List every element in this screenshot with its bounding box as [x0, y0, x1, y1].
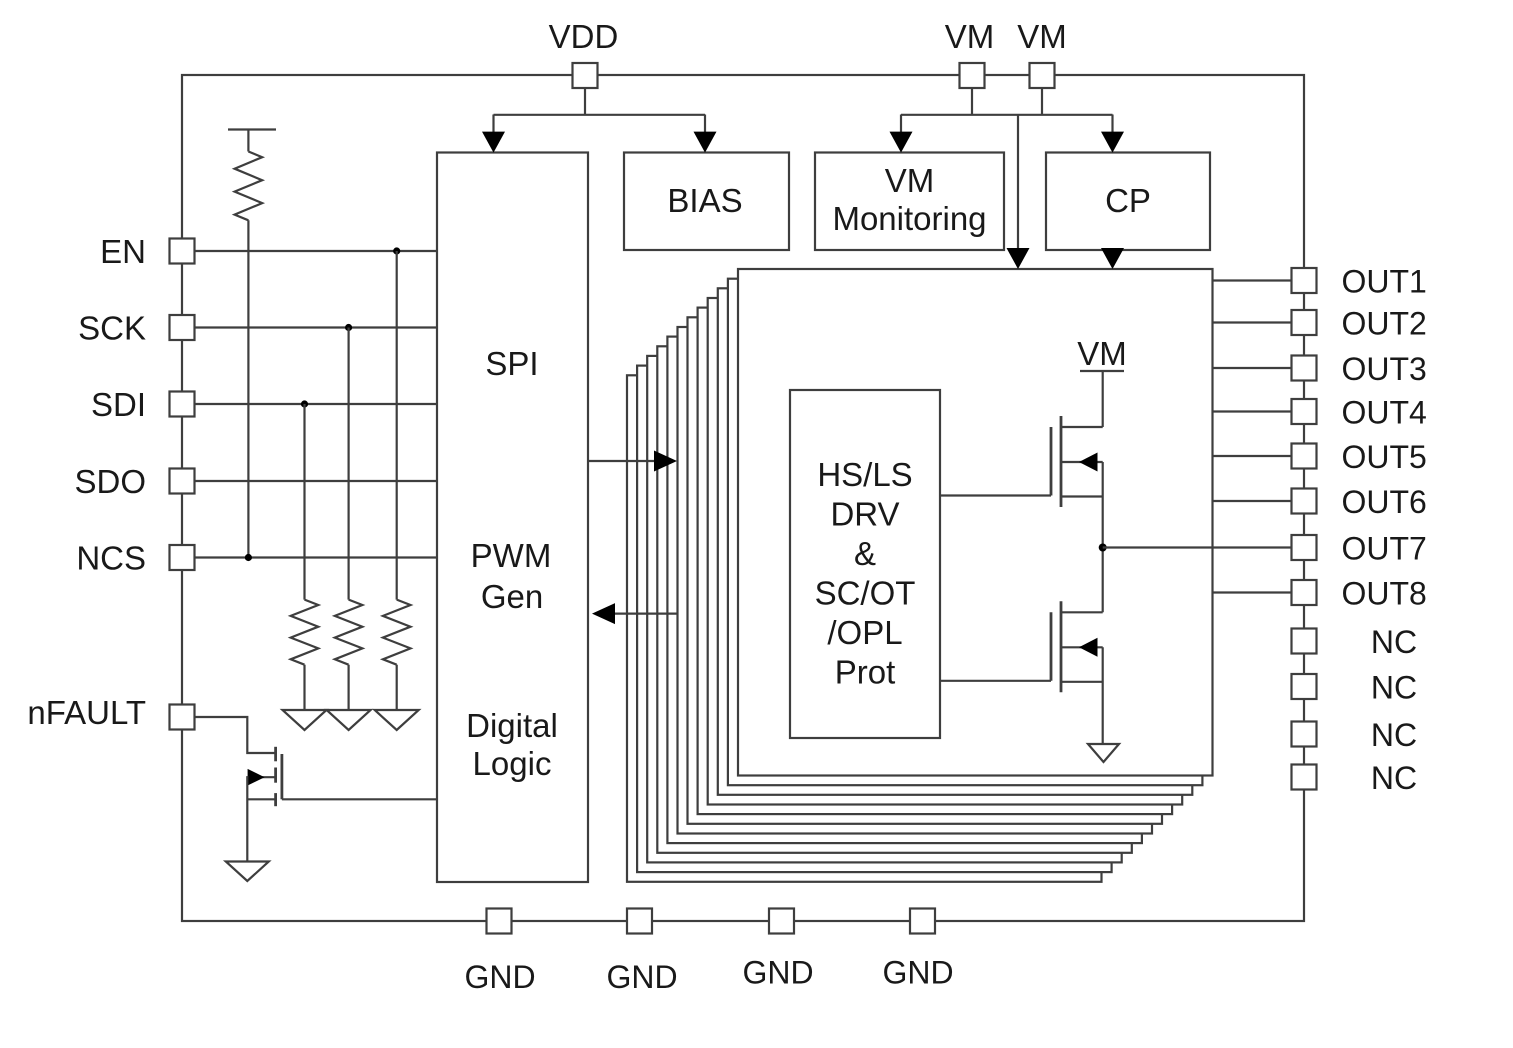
svg-text:OUT3: OUT3 [1342, 351, 1427, 387]
arrow into VM Monitoring [890, 132, 913, 153]
wire VM2 stem [1041, 88, 1043, 115]
pin VM (left) [960, 63, 985, 88]
svg-text:NC: NC [1371, 624, 1417, 660]
pin VDD [573, 63, 598, 88]
svg-text:Logic: Logic [473, 745, 552, 782]
svg-text:NCS: NCS [76, 540, 146, 577]
wire half-bridge to OUT6 [1213, 500, 1292, 502]
pin NC3 [1292, 722, 1317, 747]
wire half-bridge to OUT3 [1213, 367, 1292, 369]
svg-text:OUT1: OUT1 [1342, 264, 1427, 300]
pin GND4 [910, 909, 935, 934]
transistor nFAULT: channel segments [274, 747, 277, 762]
pin GND1 [487, 909, 512, 934]
arrow into half-bridge (VM) [1007, 248, 1030, 269]
svg-text:SDO: SDO [74, 463, 146, 500]
wire SDO to SPI [195, 480, 438, 482]
svg-text:SCK: SCK [78, 310, 146, 347]
pin OUT2 [1292, 310, 1317, 335]
wire nFAULT source to ground [246, 776, 248, 861]
wire VM bar to HS drain [1102, 371, 1104, 427]
resistor EN pull-down [383, 600, 411, 665]
arrow into half-bridge stack [654, 451, 677, 472]
pin NC2 [1292, 674, 1317, 699]
pin NCS [170, 545, 195, 570]
wire pull-up to NCS [247, 220, 249, 557]
svg-text:GND: GND [882, 955, 953, 991]
pin NC1 [1292, 629, 1317, 654]
wire VDD to SPI [492, 115, 494, 150]
svg-text:OUT2: OUT2 [1342, 306, 1427, 342]
svg-text:/OPL: /OPL [827, 614, 902, 651]
transistor HS FET: source lead [1061, 495, 1103, 497]
wire half-bridge feedback to SPI [601, 612, 677, 614]
half-bridge front block [738, 269, 1213, 776]
wire VDD stem [584, 88, 586, 115]
svg-text:OUT8: OUT8 [1342, 576, 1427, 612]
arrow into CP [1101, 132, 1124, 153]
svg-text:OUT6: OUT6 [1342, 484, 1427, 520]
pin OUT4 [1292, 399, 1317, 424]
svg-text:EN: EN [100, 233, 146, 270]
junction half-bridge output node [1099, 544, 1107, 552]
ground (LS source) [1088, 744, 1119, 762]
pin OUT6 [1292, 489, 1317, 514]
svg-text:VM: VM [945, 18, 995, 55]
svg-text:Digital: Digital [466, 707, 558, 744]
block CP [1046, 153, 1210, 251]
wire EN to SPI [195, 250, 438, 252]
wire nFAULT to transistor drain [195, 717, 276, 753]
svg-text:SPI: SPI [485, 345, 538, 382]
transistor nFAULT: source lead [247, 798, 275, 800]
svg-text:VM: VM [1077, 335, 1127, 372]
wire half-bridge to OUT1 [1213, 279, 1292, 281]
wire half-bridge to OUT5 [1213, 455, 1292, 457]
wire VM branch rail [901, 114, 1113, 116]
wire VDD branch rail [494, 114, 706, 116]
wire SPI to half-bridge control [588, 460, 668, 462]
wire resistor to ground (SDI) [303, 665, 305, 711]
wire EN pull-down [396, 251, 398, 600]
pin OUT7 [1292, 535, 1317, 560]
wire SDI pull-down [303, 404, 305, 600]
wire pull-up top [247, 130, 249, 152]
ground (nFAULT source) [226, 862, 269, 882]
wire SDI to SPI [195, 403, 438, 405]
transistor LS FET: gate bar [1050, 612, 1053, 681]
svg-text:CP: CP [1105, 182, 1151, 219]
supply bar (pull-up rail) [228, 128, 276, 130]
wire half-bridge to OUT2 [1213, 321, 1292, 323]
transistor nFAULT: body lead with arrow [247, 776, 275, 778]
svg-text:SDI: SDI [91, 386, 146, 423]
transistor HS FET: gate bar [1050, 427, 1053, 496]
pin SCK [170, 315, 195, 340]
pin GND3 [769, 909, 794, 934]
arrow into BIAS [694, 132, 717, 153]
wire half-bridge to OUT8 [1213, 591, 1292, 593]
svg-text:NC: NC [1371, 670, 1417, 706]
svg-text:PWM: PWM [471, 537, 552, 574]
pin SDO [170, 469, 195, 494]
svg-text:VM: VM [885, 162, 935, 199]
arrow into half-bridge (CP) [1101, 248, 1124, 269]
resistor SCK pull-down [335, 600, 363, 665]
transistor HS FET: channel bar [1060, 416, 1063, 507]
svg-text:BIAS: BIAS [667, 182, 742, 219]
resistor SDI pull-down [291, 600, 319, 665]
wire LS source to ground [1102, 647, 1104, 744]
svg-text:VDD: VDD [549, 18, 619, 55]
transistor LS FET: body lead with arrow [1061, 646, 1103, 648]
transistor nFAULT: gate lead to Digital Logic [282, 798, 437, 800]
wire half-bridge to OUT4 [1213, 410, 1292, 412]
block HS/LS DRV & SC/OT /OPL Prot [790, 390, 940, 738]
transistor nFAULT open-drain: gate bar [280, 754, 283, 799]
junction NCS / pull-up [245, 554, 252, 561]
wire VM to half-bridge stack [1017, 115, 1019, 267]
junction SDI / pull-down [301, 400, 308, 407]
svg-text:GND: GND [464, 959, 535, 995]
svg-text:OUT4: OUT4 [1342, 395, 1427, 431]
pin OUT3 [1292, 356, 1317, 381]
svg-text:nFAULT: nFAULT [27, 694, 146, 731]
wire VM to CP [1111, 115, 1113, 150]
svg-text:VM: VM [1017, 18, 1067, 55]
pin EN [170, 239, 195, 264]
wire SCK pull-down [348, 328, 350, 600]
transistor HS FET: body lead with arrow [1061, 461, 1103, 463]
half-bridge stack layers [627, 279, 1202, 882]
wire NCS to SPI [195, 556, 438, 558]
svg-text:OUT7: OUT7 [1342, 531, 1427, 567]
transistor LS FET: drain lead [1061, 611, 1103, 613]
resistor NCS pull-up [235, 152, 263, 221]
pin OUT1 [1292, 268, 1317, 293]
svg-text:GND: GND [606, 959, 677, 995]
svg-text:DRV: DRV [830, 496, 899, 533]
wire SCK to SPI [195, 326, 438, 328]
ground (EN pull-down) [375, 710, 419, 730]
pin nFAULT [170, 705, 195, 730]
arrow into SPI [482, 132, 505, 153]
wire VM1 stem [971, 88, 973, 115]
svg-text:GND: GND [742, 955, 813, 991]
junction SCK / pull-down [345, 324, 352, 331]
wire VDD to BIAS [704, 115, 706, 150]
pin OUT5 [1292, 444, 1317, 469]
supply bar VM (half-bridge) [1080, 370, 1124, 372]
arrow into SPI (feedback) [592, 603, 615, 624]
block SPI / PWM Gen / Digital Logic [437, 153, 588, 883]
wire HS source to LS drain [1102, 462, 1104, 612]
svg-text:&: & [854, 535, 876, 572]
junction EN / pull-down [393, 247, 400, 254]
svg-text:SC/OT: SC/OT [815, 575, 916, 612]
transistor HS FET: drain lead [1061, 426, 1103, 428]
transistor HS FET: gate lead from driver [940, 494, 1051, 496]
svg-text:OUT5: OUT5 [1342, 439, 1427, 475]
pin OUT8 [1292, 580, 1317, 605]
pin VM (right) [1030, 63, 1055, 88]
IC boundary [182, 75, 1304, 921]
transistor LS FET: gate lead from driver [940, 680, 1051, 682]
wire resistor to ground (EN) [396, 665, 398, 711]
ground (SDI pull-down) [283, 710, 327, 730]
pin SDI [170, 392, 195, 417]
wire CP output to half-bridge [1111, 250, 1113, 266]
svg-text:Gen: Gen [481, 578, 543, 615]
ground (SCK pull-down) [327, 710, 371, 730]
block VM Monitoring [815, 153, 1004, 251]
wire VM to VM Monitoring [900, 115, 902, 150]
transistor LS FET: source lead [1061, 681, 1103, 683]
svg-text:NC: NC [1371, 760, 1417, 796]
transistor LS FET: channel bar [1060, 601, 1063, 692]
pin NC4 [1292, 765, 1317, 790]
pin GND2 [627, 909, 652, 934]
wire resistor to ground (SCK) [348, 665, 350, 711]
svg-text:HS/LS: HS/LS [817, 456, 912, 493]
svg-text:Prot: Prot [835, 654, 896, 691]
svg-text:NC: NC [1371, 717, 1417, 753]
wire output node to OUT7 [1103, 546, 1292, 548]
block BIAS [624, 153, 789, 251]
svg-text:Monitoring: Monitoring [832, 200, 986, 237]
